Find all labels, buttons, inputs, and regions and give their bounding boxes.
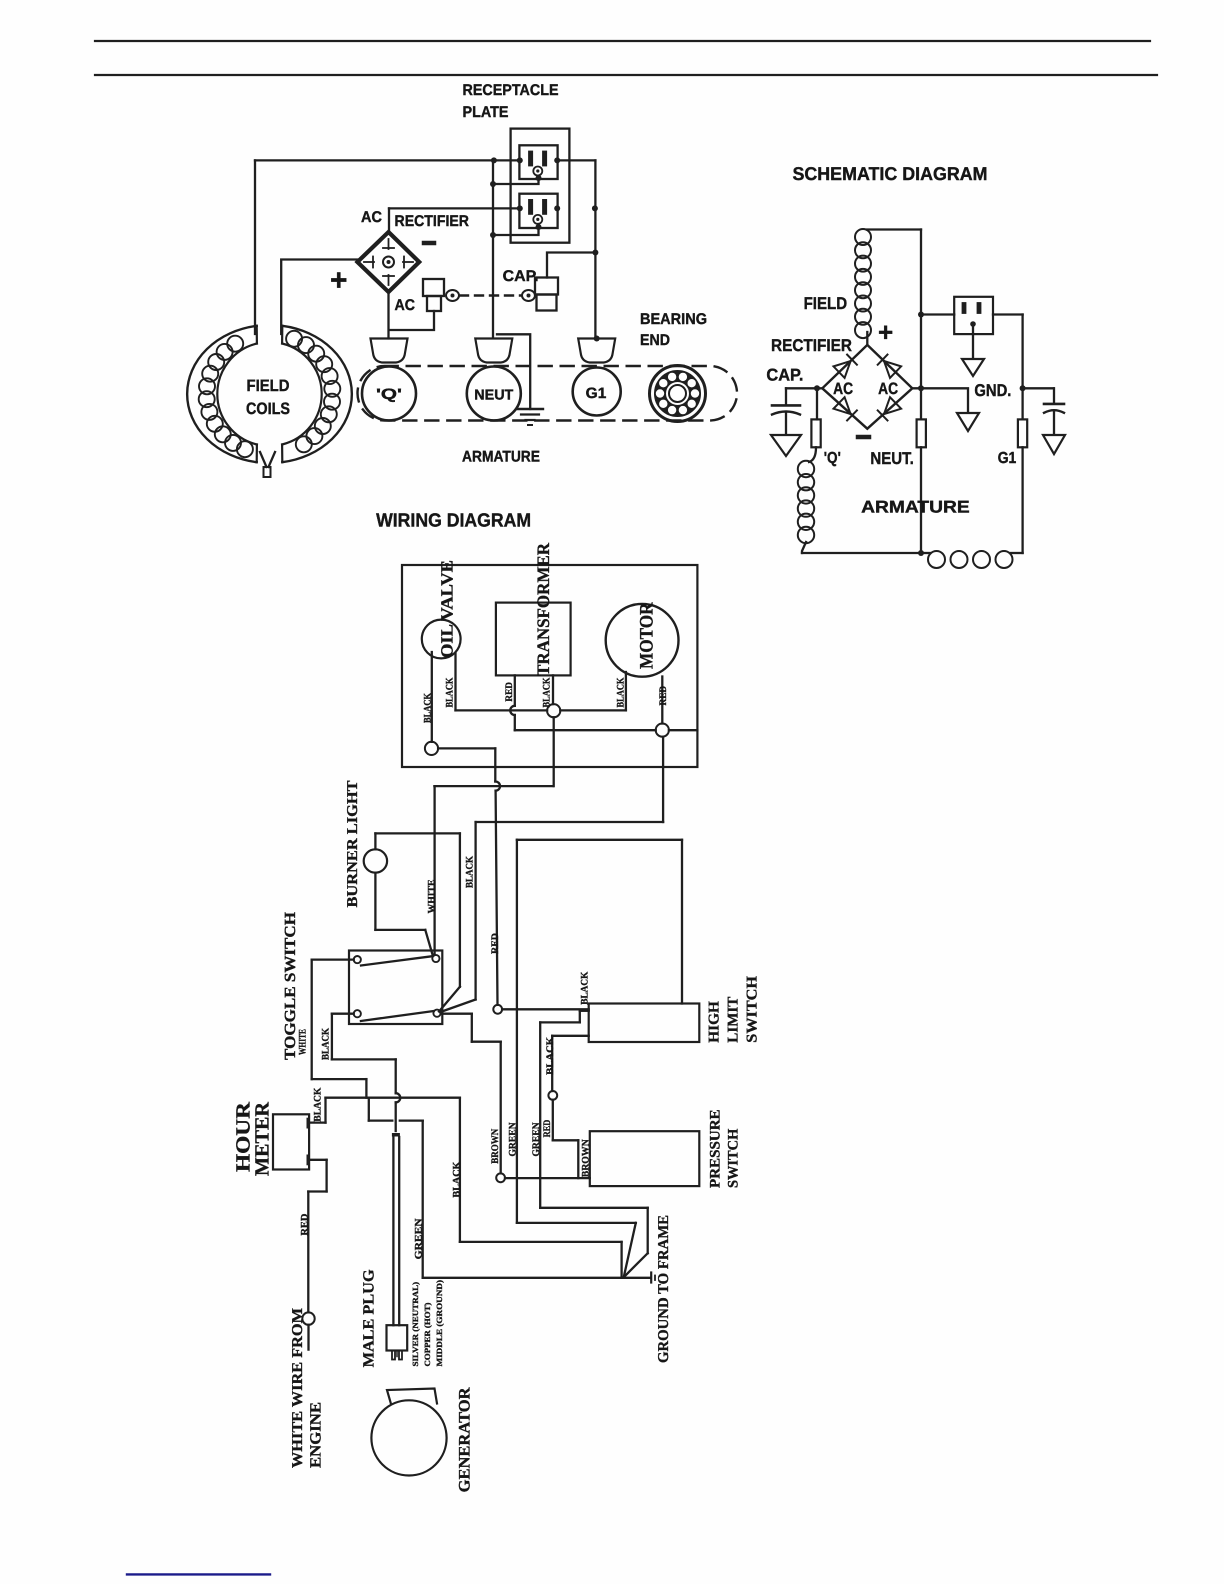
svg-text:BROWN: BROWN bbox=[581, 1139, 592, 1178]
svg-text:CAP.: CAP. bbox=[766, 366, 803, 385]
svg-text:GENERATOR: GENERATOR bbox=[457, 1387, 474, 1492]
svg-text:BLACK: BLACK bbox=[580, 971, 591, 1004]
svg-text:GROUND TO FRAME: GROUND TO FRAME bbox=[656, 1215, 672, 1363]
svg-text:ENGINE: ENGINE bbox=[308, 1402, 325, 1468]
svg-text:AC: AC bbox=[361, 209, 382, 226]
svg-text:BURNER LIGHT: BURNER LIGHT bbox=[345, 781, 361, 908]
svg-text:TRANSFORMER: TRANSFORMER bbox=[533, 543, 553, 676]
svg-text:CAP.: CAP. bbox=[503, 268, 539, 285]
svg-text:RED: RED bbox=[504, 682, 515, 702]
svg-text:WHITE WIRE FROM: WHITE WIRE FROM bbox=[290, 1308, 306, 1468]
svg-text:GREEN: GREEN bbox=[531, 1122, 542, 1157]
svg-text:BLACK: BLACK bbox=[545, 1037, 556, 1075]
svg-text:NEUT.: NEUT. bbox=[870, 449, 913, 468]
svg-text:METER: METER bbox=[252, 1101, 274, 1176]
svg-text:AC: AC bbox=[878, 380, 898, 398]
svg-text:BLACK: BLACK bbox=[465, 856, 476, 888]
svg-text:GREEN: GREEN bbox=[508, 1122, 519, 1157]
svg-text:AC: AC bbox=[833, 380, 853, 398]
svg-text:BLACK: BLACK bbox=[616, 677, 627, 707]
svg-text:HIGH: HIGH bbox=[707, 1001, 723, 1043]
svg-text:RED: RED bbox=[300, 1214, 311, 1236]
svg-text:PRESSURE: PRESSURE bbox=[708, 1109, 724, 1188]
svg-text:FIELD: FIELD bbox=[247, 377, 290, 395]
svg-text:AC: AC bbox=[395, 297, 416, 314]
svg-text:+: + bbox=[878, 317, 893, 347]
svg-text:+: + bbox=[330, 264, 348, 297]
svg-text:RED: RED bbox=[542, 1120, 553, 1138]
svg-text:END: END bbox=[640, 332, 670, 349]
svg-text:TOGGLE SWITCH: TOGGLE SWITCH bbox=[282, 912, 299, 1060]
svg-text:PLATE: PLATE bbox=[463, 104, 509, 121]
svg-text:FIELD: FIELD bbox=[804, 294, 848, 313]
svg-text:'Q': 'Q' bbox=[824, 450, 841, 467]
svg-text:MOTOR: MOTOR bbox=[637, 602, 658, 669]
svg-text:SCHEMATIC DIAGRAM: SCHEMATIC DIAGRAM bbox=[793, 163, 988, 184]
svg-text:G1: G1 bbox=[586, 385, 607, 402]
svg-text:BLACK: BLACK bbox=[423, 693, 434, 723]
svg-text:RECTIFIER: RECTIFIER bbox=[771, 336, 852, 355]
svg-text:BEARING: BEARING bbox=[640, 311, 707, 328]
svg-text:SWITCH: SWITCH bbox=[745, 976, 761, 1043]
svg-text:COPPER (HOT): COPPER (HOT) bbox=[423, 1302, 432, 1366]
svg-text:BLACK: BLACK bbox=[445, 677, 456, 707]
svg-text:LIMIT: LIMIT bbox=[726, 997, 742, 1043]
svg-text:BLACK: BLACK bbox=[452, 1161, 463, 1197]
svg-text:SWITCH: SWITCH bbox=[726, 1128, 742, 1188]
svg-text:RECTIFIER: RECTIFIER bbox=[395, 213, 470, 230]
svg-text:SILVER (NEUTRAL): SILVER (NEUTRAL) bbox=[411, 1282, 420, 1367]
svg-text:OIL VALVE: OIL VALVE bbox=[438, 560, 457, 658]
svg-text:WHITE: WHITE bbox=[427, 879, 438, 913]
svg-text:'Q': 'Q' bbox=[376, 386, 402, 403]
svg-text:ARMATURE: ARMATURE bbox=[462, 449, 540, 466]
svg-text:MIDDLE (GROUND): MIDDLE (GROUND) bbox=[435, 1280, 444, 1367]
svg-text:MALE PLUG: MALE PLUG bbox=[361, 1269, 378, 1367]
svg-text:RECEPTACLE: RECEPTACLE bbox=[463, 82, 559, 99]
svg-text:GREEN: GREEN bbox=[414, 1218, 425, 1260]
svg-text:ARMATURE: ARMATURE bbox=[861, 498, 970, 517]
svg-text:COILS: COILS bbox=[246, 400, 290, 418]
svg-text:G1: G1 bbox=[998, 450, 1017, 467]
svg-text:WIRING DIAGRAM: WIRING DIAGRAM bbox=[376, 511, 531, 532]
svg-text:NEUT: NEUT bbox=[474, 388, 513, 404]
svg-text:BROWN: BROWN bbox=[490, 1128, 501, 1164]
svg-text:BLACK: BLACK bbox=[542, 677, 553, 707]
svg-text:WHITE: WHITE bbox=[298, 1029, 309, 1055]
svg-text:BLACK: BLACK bbox=[313, 1087, 324, 1121]
svg-text:RED: RED bbox=[658, 686, 669, 706]
svg-text:RED: RED bbox=[490, 933, 501, 954]
svg-text:GND.: GND. bbox=[974, 381, 1011, 400]
svg-text:BLACK: BLACK bbox=[321, 1028, 332, 1060]
